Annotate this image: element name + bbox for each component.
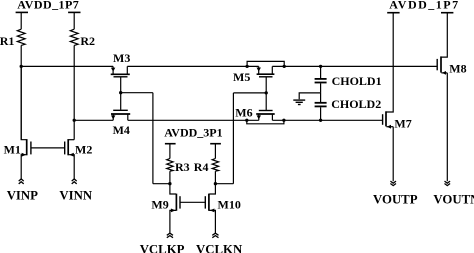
wire top rail left segment: [21, 65, 113, 67]
svg-text:M1: M1: [4, 142, 21, 156]
power bar M8: [441, 12, 453, 14]
power bar left 1 (R1): [16, 11, 28, 13]
transistor M8: [437, 13, 447, 182]
resistor R2: [70, 29, 78, 45]
node M5 left: [245, 65, 248, 68]
transistor M3: [111, 66, 130, 92]
resistor R3: [167, 159, 173, 172]
node M4 rail junction: [73, 119, 76, 122]
transistor M1: [21, 66, 31, 178]
wire vertical x233: [232, 93, 234, 184]
wire gate node to right: [121, 92, 153, 94]
svg-text:VOUTN: VOUTN: [433, 192, 474, 206]
wire ground branch: [299, 93, 320, 99]
power bar R3: [165, 143, 176, 145]
svg-text:M5: M5: [233, 70, 250, 84]
power bar left 2 (R2): [68, 11, 80, 13]
wire R2 stem: [73, 12, 75, 29]
svg-text:AVDD_3P1: AVDD_3P1: [164, 126, 222, 140]
node M6 left: [245, 119, 248, 122]
wire top rail middle segment: [127, 65, 258, 67]
transistor M5: [257, 66, 275, 93]
node M3/M4 gate: [119, 91, 122, 94]
transistor M4: [111, 93, 130, 121]
node R4 bottom: [214, 182, 217, 185]
node R1 top-rail junction: [20, 65, 23, 68]
svg-text:CHOLD1: CHOLD1: [332, 74, 382, 88]
node CHOLD1 top: [319, 65, 322, 68]
wire M6 dummy bracket: [247, 120, 284, 124]
transistor M9: [170, 184, 180, 233]
wire bottom rail seg3: [272, 119, 382, 121]
svg-text:VCLKP: VCLKP: [140, 242, 185, 253]
transistor M2: [65, 139, 75, 179]
node M5/M6 gate: [265, 91, 268, 94]
node CHOLD2 bottom: [319, 119, 322, 122]
svg-text:AVDD_1P7: AVDD_1P7: [17, 0, 79, 12]
wire M1-M2 gate: [31, 147, 65, 149]
wire bottom rail seg1: [74, 119, 113, 121]
svg-text:M4: M4: [113, 123, 130, 137]
wire R1 column down to M1: [20, 45, 22, 139]
resistor R1: [17, 29, 25, 45]
port VINN arrow: [72, 179, 77, 184]
wire R3 stem: [169, 144, 171, 159]
node R3 bottom: [168, 182, 171, 185]
svg-text:AVDD_1P7: AVDD_1P7: [389, 0, 459, 12]
node M6 right: [282, 119, 285, 122]
wire R2 column down to M2: [73, 45, 75, 139]
power bar M7: [387, 12, 399, 14]
svg-text:M8: M8: [449, 61, 466, 75]
svg-text:M7: M7: [394, 117, 411, 131]
wire R1 stem: [20, 12, 22, 29]
wire R4 bottom: [214, 171, 216, 184]
svg-text:CHOLD2: CHOLD2: [331, 97, 381, 111]
wire top rail right segment: [272, 65, 437, 67]
transistor M7: [383, 13, 394, 182]
wire R4 stem: [214, 144, 216, 159]
port VOUTN arrow: [445, 181, 451, 186]
svg-text:R1: R1: [0, 34, 14, 48]
capacitor CHOLD1: [315, 66, 327, 93]
svg-text:M6: M6: [235, 105, 252, 119]
wire bottom rail seg2: [128, 119, 259, 121]
node M5 right: [283, 65, 286, 68]
wire gate node left: [233, 92, 266, 94]
svg-text:M2: M2: [75, 142, 92, 156]
wire M9-M10 gate: [180, 201, 205, 203]
capacitor CHOLD2: [315, 93, 327, 120]
resistor R4: [212, 159, 218, 172]
transistor M10: [205, 184, 215, 233]
svg-text:M3: M3: [113, 51, 130, 65]
svg-text:M10: M10: [218, 197, 241, 211]
svg-text:VINN: VINN: [59, 188, 92, 202]
ground: [293, 100, 305, 104]
port VOUTP arrow: [390, 181, 396, 186]
power bar R4: [210, 143, 221, 145]
wire to R3 bottom: [153, 183, 170, 185]
port VCLKP arrow: [167, 233, 173, 238]
port VINP arrow: [19, 179, 24, 184]
svg-text:VINP: VINP: [7, 188, 38, 202]
svg-text:R4: R4: [194, 160, 209, 174]
svg-text:R3: R3: [175, 160, 190, 174]
svg-text:VOUTP: VOUTP: [373, 192, 418, 206]
wire to R4 bottom: [215, 183, 233, 185]
svg-text:R2: R2: [80, 34, 95, 48]
wire vertical x153: [152, 93, 154, 184]
wire R3 bottom: [169, 171, 171, 184]
wire M5 dummy bracket: [247, 61, 284, 66]
port VCLKN arrow: [212, 233, 218, 238]
transistor M6: [256, 93, 275, 120]
svg-text:VCLKN: VCLKN: [196, 242, 243, 253]
svg-text:M9: M9: [151, 197, 168, 211]
